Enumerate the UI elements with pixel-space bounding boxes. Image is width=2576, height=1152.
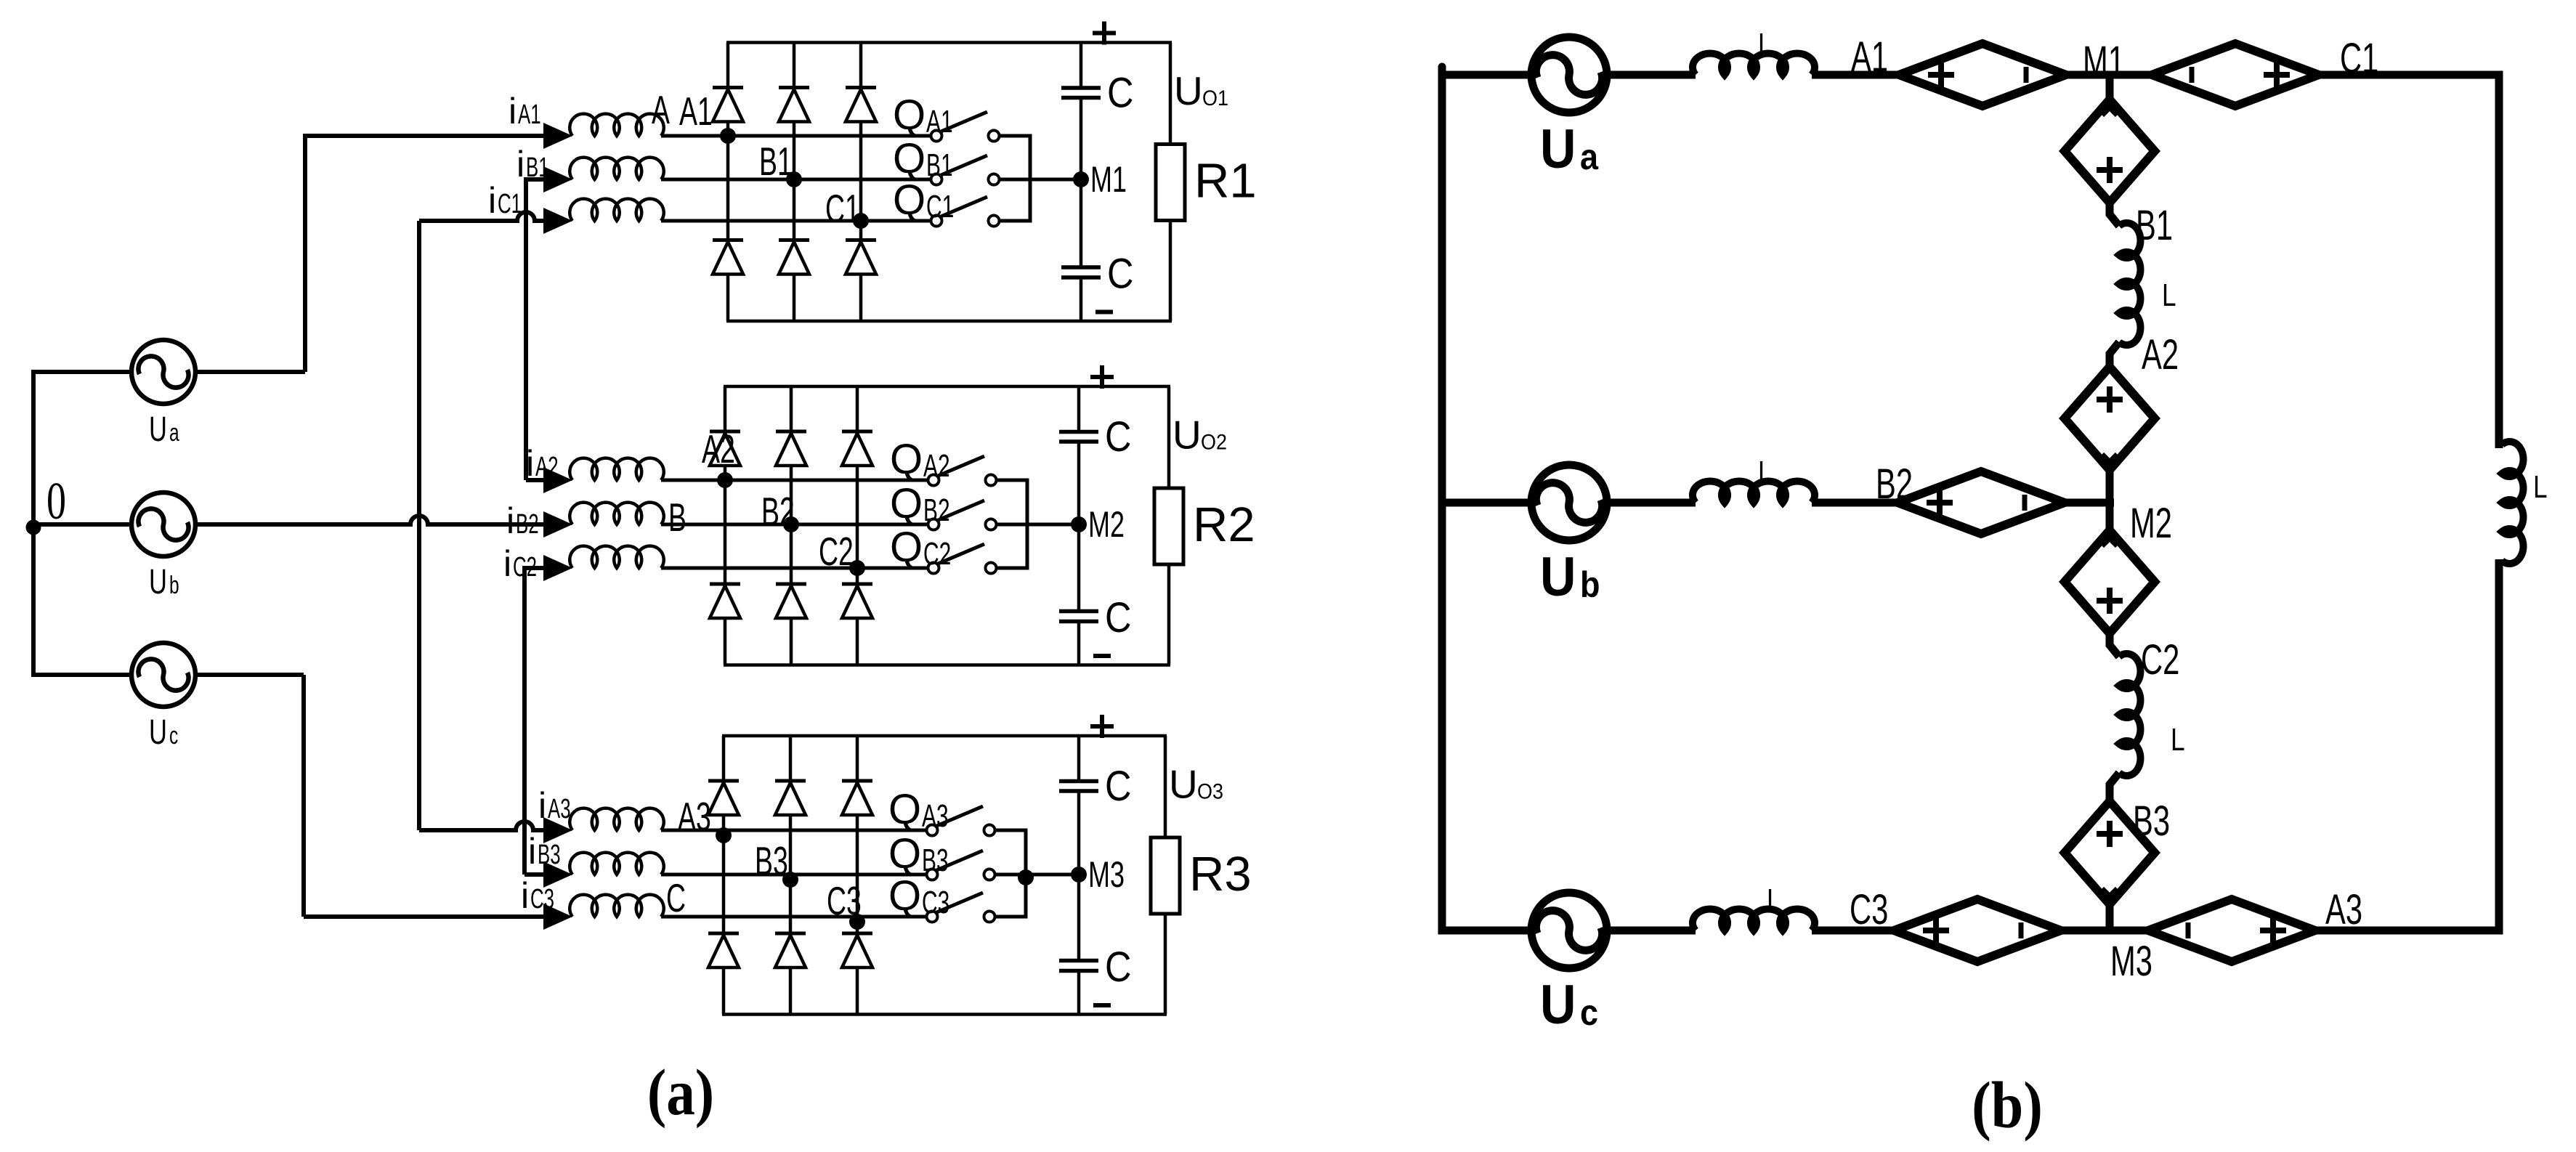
svg-text:i: i xyxy=(503,543,511,584)
module 2 top DC bus (+) xyxy=(724,385,1170,389)
resistor R2 xyxy=(1154,488,1183,564)
switch QB1 throw circle xyxy=(989,174,1000,185)
wire row B2 xyxy=(661,523,928,527)
wire phase c to iC3 arrow xyxy=(304,914,543,919)
wire 0 to Ua xyxy=(31,370,131,374)
wire C3 diamond to M3 xyxy=(2061,927,2147,935)
svg-text:C: C xyxy=(1105,413,1131,461)
node B2 junction dot xyxy=(783,516,799,532)
switch QA1 blade xyxy=(939,112,987,132)
svg-text:i: i xyxy=(538,785,546,826)
svg-text:a: a xyxy=(1580,137,1599,178)
wire Ua to corner xyxy=(195,370,305,374)
boost inductor LB2 xyxy=(570,503,664,524)
wire jog inductor to A2 diamond xyxy=(2110,342,2119,368)
wire QA2 throw to bus xyxy=(996,480,1027,524)
plus sign module 3 xyxy=(1090,724,1114,729)
AC source Ub xyxy=(131,492,195,556)
switch QA2 throw circle xyxy=(986,475,997,486)
svg-text:Q: Q xyxy=(888,872,921,920)
controlled source A2 (vertical) xyxy=(2065,367,2155,470)
module 3 right edge upper wire xyxy=(1164,736,1167,837)
wire phase a to iA1 arrow xyxy=(303,134,543,138)
switch QB3 throw circle xyxy=(984,869,995,880)
AC source Uc (b) xyxy=(1531,893,1607,968)
svg-text:Q: Q xyxy=(890,436,923,483)
switch QA2 blade xyxy=(936,456,984,476)
svg-text:O1: O1 xyxy=(1202,86,1228,111)
node M3 dot xyxy=(1071,867,1087,883)
svg-text:A3: A3 xyxy=(922,798,949,833)
current arrow iB1 xyxy=(543,166,572,192)
wire left bus to Ua (b) xyxy=(1442,71,1533,79)
wire QC2 throw to bus and common bus xyxy=(996,524,1027,568)
svg-text:L: L xyxy=(2171,722,2185,758)
AC source Uc xyxy=(131,643,195,707)
svg-text:A1: A1 xyxy=(926,103,953,139)
module 1 right edge upper wire xyxy=(1169,43,1172,145)
plus sign module 1 xyxy=(1093,31,1116,36)
minus sign module 1 xyxy=(1095,310,1113,315)
capacitor leg module 3 xyxy=(1077,736,1081,780)
svg-text:i: i xyxy=(506,500,514,541)
current arrow iC1 xyxy=(543,208,572,234)
boost inductor LC2 xyxy=(570,546,664,568)
node A2 junction dot xyxy=(717,472,733,488)
wire phase a vertical riser xyxy=(303,136,307,372)
svg-text:C: C xyxy=(1105,763,1131,810)
boost inductor LB3 xyxy=(570,853,664,875)
svg-text:A3: A3 xyxy=(2325,885,2362,933)
wire jog C2 diamond to inductor xyxy=(2110,630,2119,657)
wire left bus to Uc (b) xyxy=(1442,927,1533,935)
svg-text:C2: C2 xyxy=(923,535,951,571)
svg-text:R2: R2 xyxy=(1193,498,1255,552)
controlled source B2-M2 xyxy=(1897,471,2065,534)
net C1-A3 wire to iC1 (hop over B1-A2 line) xyxy=(419,212,543,221)
diode leg B3 (top diode and bottom diode) xyxy=(789,736,793,781)
wire B2 diamond to M2 xyxy=(2065,499,2114,507)
switch QB1 blade xyxy=(939,155,987,176)
wire jog inductor to B3 diamond xyxy=(2110,773,2119,802)
inductor L right bus xyxy=(2502,442,2524,564)
wire M1 to B1 diamond xyxy=(2106,75,2114,104)
switch QC3 blade xyxy=(935,893,983,913)
svg-text:c: c xyxy=(169,722,178,750)
svg-text:B2: B2 xyxy=(516,508,539,539)
svg-text:0: 0 xyxy=(46,471,66,530)
controlled source A1-M1 xyxy=(1899,44,2066,106)
svg-text:A2: A2 xyxy=(535,451,559,482)
diode leg A1 (top diode and bottom diode) xyxy=(726,43,730,88)
net B1-A2 vertical wire xyxy=(524,177,528,480)
wire Uc to corner xyxy=(195,673,304,677)
wire QA1 throw to bus xyxy=(999,136,1030,179)
svg-text:R1: R1 xyxy=(1194,154,1257,208)
switch QB3 blade xyxy=(935,851,983,871)
current arrow iB3 xyxy=(543,861,572,888)
svg-text:U: U xyxy=(1172,413,1202,458)
svg-text:L: L xyxy=(1767,883,1781,918)
svg-text:C2: C2 xyxy=(2141,636,2179,683)
svg-text:R3: R3 xyxy=(1189,847,1252,901)
minus sign module 2 xyxy=(1093,654,1111,658)
switch QC1 blade xyxy=(939,197,987,217)
wire A1 diamond to C1 diamond through M1 xyxy=(2066,71,2152,79)
module 1 top DC bus (+) xyxy=(726,41,1172,44)
svg-text:C3: C3 xyxy=(1850,885,1888,933)
svg-text:M3: M3 xyxy=(1088,855,1125,895)
switch QC3 pole circle xyxy=(927,912,938,922)
module 2 right edge lower wire xyxy=(1167,564,1171,665)
svg-text:C: C xyxy=(1107,250,1133,297)
AC source Ua xyxy=(131,340,195,404)
svg-text:Q: Q xyxy=(893,92,926,139)
capacitor leg module 1 xyxy=(1080,43,1083,87)
left bus top stub (b) xyxy=(1438,67,1446,76)
wire left bus to Ub (b) xyxy=(1442,499,1533,507)
node M1 dot xyxy=(1073,171,1089,187)
net C1-A3 vertical wire xyxy=(417,221,421,830)
wire row A3 xyxy=(661,829,927,832)
wire QB3 throw to M3 xyxy=(995,873,1079,877)
wire A2 diamond to M2 xyxy=(2106,470,2114,503)
svg-text:M2: M2 xyxy=(2130,499,2172,546)
node A1 junction dot xyxy=(720,128,736,144)
svg-text:C1: C1 xyxy=(926,188,954,224)
svg-text:(a): (a) xyxy=(647,1056,714,1129)
wire jog B1 diamond to inductor xyxy=(2110,200,2119,226)
switch QC2 throw circle xyxy=(986,563,997,574)
switch QA3 throw circle xyxy=(984,825,995,836)
node B3 junction dot xyxy=(782,872,798,888)
wire inductor to C3 diamond (b) xyxy=(1812,927,1894,935)
net B1-A2 horizontal stub at iA2 xyxy=(526,478,543,482)
svg-text:C: C xyxy=(666,875,686,920)
wire Uc to inductor (b) xyxy=(1605,927,1696,935)
svg-text:U: U xyxy=(149,561,167,601)
AC source Ua (b) xyxy=(1531,37,1607,113)
current arrow iC2 xyxy=(543,555,572,581)
inductor L row3 (b) xyxy=(1693,909,1815,930)
svg-text:i: i xyxy=(517,144,524,184)
node B1 junction dot xyxy=(786,171,802,187)
controlled source M3-A3 xyxy=(2148,899,2315,962)
net C2-B3 horizontal stub at iB3 xyxy=(524,872,543,877)
svg-text:O2: O2 xyxy=(1201,430,1227,455)
wire Ub to inductor (b) xyxy=(1605,499,1696,507)
switch QB2 blade xyxy=(936,500,984,521)
wire row C1 xyxy=(661,219,931,223)
module 3 right edge lower wire xyxy=(1164,914,1167,1015)
left bus wire (b) xyxy=(1438,71,1446,935)
node C2 junction dot xyxy=(849,560,865,576)
wire QB1 throw to M1 xyxy=(999,178,1081,182)
svg-text:U: U xyxy=(1174,68,1203,113)
svg-text:O3: O3 xyxy=(1197,779,1223,804)
switch QC2 pole circle xyxy=(928,563,939,574)
diode leg C2 (top diode and bottom diode) xyxy=(856,386,859,431)
net C2-B3 horizontal stub at iC2 xyxy=(524,566,543,570)
module 2 bottom DC bus (-) xyxy=(724,663,1170,667)
controlled source M1-C1 xyxy=(2152,44,2319,106)
svg-text:A1: A1 xyxy=(1851,33,1888,80)
wire 0 to Ub xyxy=(33,522,131,527)
capacitor C upper module 3 xyxy=(1059,779,1098,784)
plus sign module 2 xyxy=(1090,375,1114,379)
diode leg B1 (top diode and bottom diode) xyxy=(793,43,796,88)
svg-text:U: U xyxy=(149,712,167,751)
svg-text:B2: B2 xyxy=(923,492,950,527)
AC source Ub (b) xyxy=(1531,465,1607,540)
svg-text:A2: A2 xyxy=(2142,330,2179,378)
svg-text:Q: Q xyxy=(890,524,923,571)
wire QC3 throw to bus and common bus xyxy=(995,875,1026,917)
minus sign module 3 xyxy=(1093,1003,1111,1007)
svg-text:i: i xyxy=(509,91,517,131)
svg-text:M3: M3 xyxy=(2110,937,2152,984)
module 1 bottom DC bus (-) xyxy=(726,320,1172,323)
svg-text:L: L xyxy=(1758,27,1773,62)
net B1-A2 horizontal stub at iB1 xyxy=(526,177,543,182)
svg-text:M2: M2 xyxy=(1088,505,1125,545)
svg-text:c: c xyxy=(1580,993,1598,1034)
current arrow iB2 xyxy=(543,511,572,538)
svg-text:C3: C3 xyxy=(530,883,554,914)
svg-text:B3: B3 xyxy=(538,839,561,869)
controlled source C3-M3 xyxy=(1894,899,2061,962)
capacitor C lower module 2 xyxy=(1059,609,1098,614)
switch QC3 throw circle xyxy=(984,912,995,922)
svg-text:A: A xyxy=(652,87,670,132)
svg-text:i: i xyxy=(526,443,534,484)
junction dot on switch bus module 3 xyxy=(1018,869,1034,885)
module 3 top DC bus (+) xyxy=(722,734,1167,738)
inductor L chain upper xyxy=(2119,223,2141,345)
switch QC1 throw circle xyxy=(989,216,1000,227)
switch QA1 throw circle xyxy=(989,131,1000,142)
node C3 junction dot xyxy=(849,914,865,930)
wire row B3 xyxy=(661,873,927,877)
capacitor C upper module 2 xyxy=(1059,430,1098,434)
node 0 dot xyxy=(26,520,41,535)
svg-text:L: L xyxy=(2533,469,2548,505)
net C1-A3 wire to iA3 (hop over C2-B3 line) xyxy=(419,822,543,830)
wire QA3 throw to bus xyxy=(995,830,1026,875)
svg-text:U: U xyxy=(1540,975,1576,1036)
svg-text:C: C xyxy=(1105,944,1131,991)
diode leg C3 (top diode and bottom diode) xyxy=(856,736,859,781)
inductor L row1 (b) xyxy=(1693,53,1815,75)
node M2 dot xyxy=(1071,516,1087,532)
svg-text:a: a xyxy=(169,419,179,447)
wire Ua to inductor (b) xyxy=(1605,71,1696,79)
svg-text:C3: C3 xyxy=(922,884,949,920)
wire QC1 throw to bus and common bus xyxy=(999,179,1030,221)
wire row A2 xyxy=(661,479,928,482)
svg-text:B1: B1 xyxy=(926,147,953,182)
switch QC1 pole circle xyxy=(931,216,942,227)
svg-text:Q: Q xyxy=(888,786,921,833)
svg-text:C: C xyxy=(1107,69,1133,116)
current arrow iA2 xyxy=(543,467,572,493)
svg-text:A1: A1 xyxy=(679,89,713,134)
svg-text:i: i xyxy=(528,831,536,872)
wire A3 diamond to right bus xyxy=(2316,927,2503,935)
svg-text:C2: C2 xyxy=(513,551,537,582)
right bus lower wire (b) xyxy=(2495,559,2503,935)
switch QB2 pole circle xyxy=(928,519,939,530)
wire row C2 xyxy=(661,567,928,570)
controlled source C2 (vertical) xyxy=(2065,530,2155,633)
svg-text:B: B xyxy=(668,495,686,540)
current arrow iC3 xyxy=(543,904,572,930)
net C2-B3 vertical wire xyxy=(522,566,527,875)
controlled source B1 (vertical) xyxy=(2065,100,2155,203)
resistor R1 xyxy=(1156,145,1185,221)
current arrow iA3 xyxy=(543,817,572,843)
switch QA2 pole circle xyxy=(928,475,939,486)
switch QB2 throw circle xyxy=(986,519,997,530)
controlled source B3 (vertical) xyxy=(2065,801,2155,904)
wire Ub to iB2 arrow (hop over phase-c line) xyxy=(195,516,543,524)
svg-text:M1: M1 xyxy=(2083,37,2125,84)
svg-text:Q: Q xyxy=(890,480,923,527)
capacitor C lower module 3 xyxy=(1059,959,1098,963)
boost inductor LC3 xyxy=(570,895,664,917)
capacitor leg module 2 xyxy=(1077,386,1081,431)
wire B3 diamond to M3 xyxy=(2106,904,2114,930)
svg-text:b: b xyxy=(169,572,179,599)
wire QB2 throw to M2 xyxy=(996,523,1079,527)
boost inductor LA3 xyxy=(570,808,664,830)
resistor R3 xyxy=(1151,837,1180,914)
right bus upper wire (b) xyxy=(2495,71,2503,449)
switch QA3 blade xyxy=(935,806,983,827)
module 2 right edge upper wire xyxy=(1167,386,1171,488)
wire row C3 xyxy=(661,915,927,919)
neutral bus wire (left vertical) xyxy=(31,372,36,675)
boost inductor LB1 xyxy=(570,158,664,179)
svg-text:U: U xyxy=(1540,119,1576,180)
capacitor C upper module 1 xyxy=(1061,86,1101,90)
svg-text:Q: Q xyxy=(893,177,926,224)
switch QC2 blade xyxy=(936,544,984,564)
svg-text:C1: C1 xyxy=(498,188,522,219)
module 3 bottom DC bus (-) xyxy=(722,1013,1167,1016)
boost inductor LA1 xyxy=(570,114,664,136)
diode leg A2 (top diode and bottom diode) xyxy=(724,386,727,431)
wire C1 diamond to right bus xyxy=(2319,71,2503,79)
node A3 junction dot xyxy=(716,827,732,843)
wire inductor to A1 diamond (b) xyxy=(1812,71,1899,79)
switch QB3 pole circle xyxy=(927,869,938,880)
svg-text:Q: Q xyxy=(893,135,926,182)
svg-text:A2: A2 xyxy=(923,447,950,483)
svg-text:(b): (b) xyxy=(1972,1068,2043,1142)
svg-text:L: L xyxy=(2162,277,2176,313)
svg-text:M1: M1 xyxy=(1090,160,1127,200)
diode leg A3 (top diode and bottom diode) xyxy=(722,736,726,781)
svg-text:i: i xyxy=(521,875,529,916)
module 1 right edge lower wire xyxy=(1169,221,1172,322)
switch QA1 pole circle xyxy=(931,131,942,142)
svg-text:L: L xyxy=(1758,455,1773,490)
svg-text:A1: A1 xyxy=(518,99,541,129)
svg-text:B3: B3 xyxy=(922,842,949,877)
svg-text:Q: Q xyxy=(888,830,921,877)
svg-text:B1: B1 xyxy=(526,152,549,182)
svg-text:U: U xyxy=(1169,762,1198,807)
svg-text:C: C xyxy=(1105,594,1131,641)
diode leg C1 (top diode and bottom diode) xyxy=(859,43,863,88)
wire 0 to Uc xyxy=(31,673,131,677)
wire M2 to C2 diamond xyxy=(2106,503,2114,535)
svg-text:b: b xyxy=(1580,565,1600,606)
capacitor C lower module 1 xyxy=(1061,265,1101,269)
switch QB1 pole circle xyxy=(931,174,942,185)
svg-text:U: U xyxy=(149,409,167,448)
boost inductor LC1 xyxy=(570,199,664,221)
svg-text:U: U xyxy=(1540,547,1576,608)
wire row A1 xyxy=(661,134,931,138)
node C1 junction dot xyxy=(853,213,869,229)
svg-text:i: i xyxy=(488,180,496,221)
current arrow iA1 xyxy=(543,123,572,149)
inductor L row2 (b) xyxy=(1693,481,1815,503)
wire row B1 xyxy=(661,178,931,182)
diode leg B2 (top diode and bottom diode) xyxy=(790,386,793,431)
boost inductor LA2 xyxy=(570,458,664,480)
svg-text:A3: A3 xyxy=(548,793,571,824)
switch QA3 pole circle xyxy=(927,825,938,836)
wire phase c vertical dropper xyxy=(301,675,306,917)
wire inductor to B2 diamond (b) xyxy=(1812,499,1897,507)
inductor L chain lower xyxy=(2119,654,2141,776)
